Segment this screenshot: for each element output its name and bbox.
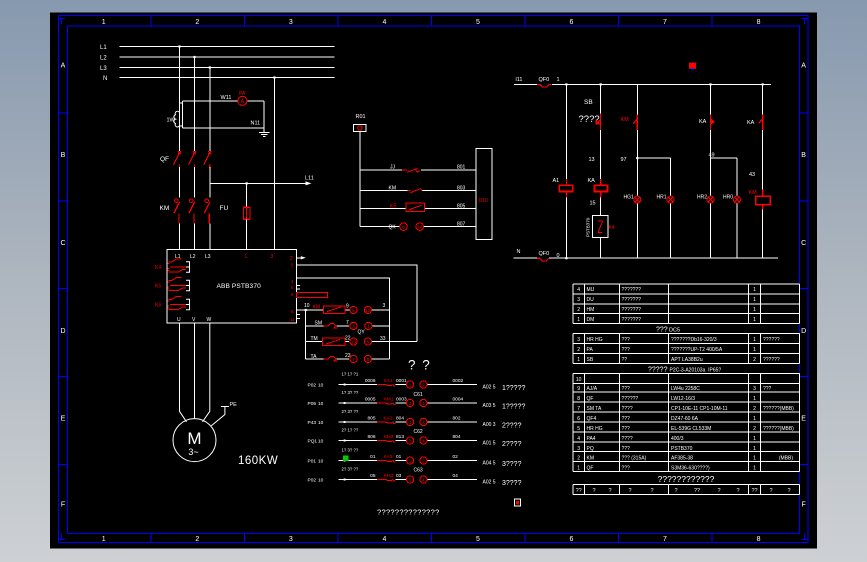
terminal pins row4 [350,355,372,362]
svg-text:??????: ?????? [763,337,780,343]
svg-text:PE: PE [230,402,238,408]
svg-text:KM: KM [160,205,170,212]
svg-text:2: 2 [422,382,425,387]
svg-text:TA: TA [311,354,318,360]
svg-text:? ?: ? ? [408,358,431,373]
svg-text:???????: ??????? [622,287,642,293]
svg-text:K4: K4 [155,265,161,271]
pushbutton SB [596,114,601,131]
svg-text:EL-539G CL533M: EL-539G CL533M [671,426,711,432]
svg-text:1: 1 [753,416,756,422]
svg-text:D: D [801,328,806,335]
svg-text:W: W [207,317,212,323]
svg-text:??????????????: ?????????????? [377,508,440,517]
svg-text:1: 1 [753,297,756,303]
svg-text:QF: QF [587,396,594,402]
svg-text:(MBB): (MBB) [779,456,794,462]
svg-text:???: ??? [656,327,668,334]
svg-text:10: 10 [318,420,324,426]
svg-text:U: U [177,317,181,323]
svg-text:D: D [60,328,65,335]
svg-text:?: ? [650,488,653,494]
svg-text:4: 4 [577,287,580,293]
lamp HG1 [634,196,641,203]
svg-text:P02: P02 [308,478,317,484]
svg-text:13: 13 [351,340,357,345]
wire ladder left rail [359,132,361,227]
svg-text:QF0: QF0 [539,251,550,257]
svg-text:PSTB370: PSTB370 [671,446,693,452]
svg-text:1: 1 [245,254,248,260]
svg-text:DZ47-60 6A: DZ47-60 6A [671,416,699,422]
wire L2 bus [120,56,335,58]
svg-text:F: F [801,502,805,509]
svg-text:01: 01 [370,454,376,460]
wire aux row2 [306,325,390,327]
svg-text:E: E [801,416,806,423]
svg-text:???: ??? [622,416,631,422]
wire branch KM lamps [636,84,638,258]
svg-text:??: ?? [622,357,628,363]
svg-text:KM1: KM1 [384,397,394,403]
svg-text:10: 10 [318,401,324,407]
svg-text:SB: SB [587,357,594,363]
svg-text:AF385-38: AF385-38 [671,456,693,462]
svg-text:1: 1 [102,536,106,543]
row letters right [801,62,806,508]
svg-text:6: 6 [577,416,580,422]
svg-text:A01 5: A01 5 [483,441,496,447]
svg-text:???????UP-T2 400/5A: ???????UP-T2 400/5A [671,347,723,353]
svg-text:FU: FU [220,205,229,212]
svg-text:N: N [517,249,521,255]
svg-text:10: 10 [318,478,324,484]
svg-text:MU: MU [587,287,595,293]
terminal row KA1 [308,371,526,392]
svg-text:HR1: HR1 [657,195,667,201]
starter top terminal labels [175,254,211,260]
svg-text:???: ??? [622,347,631,353]
svg-text:?????: ????? [648,367,668,374]
contactor KM pole [189,199,195,224]
ground for ammeter loop [259,132,269,136]
svg-text:TM: TM [311,336,318,342]
contact KA aux 2 [759,115,763,131]
phase line labels L1 L2 L3 N [100,45,107,82]
node taps on phase buses [178,45,275,78]
svg-text:7: 7 [346,320,349,326]
contact KM rung [407,189,422,193]
svg-text:7: 7 [663,536,667,543]
svg-text:05: 05 [370,473,376,479]
svg-text:5: 5 [476,19,480,26]
switch TA [324,357,338,362]
svg-text:???: ??? [622,446,631,452]
svg-text:?: ? [674,488,677,494]
svg-text:2: 2 [195,19,199,26]
svg-text:A: A [61,62,66,69]
wire branch KA lamps [710,84,712,258]
svg-text:C: C [60,240,65,247]
wire L3 bus [120,67,335,69]
svg-text:3: 3 [271,254,274,260]
svg-text:?: ? [787,488,790,494]
breaker QF pole [174,151,182,168]
svg-text:6: 6 [570,536,574,543]
contact KM aux [633,115,637,131]
svg-text:?: ? [608,488,611,494]
terminal pins row3 [350,338,372,345]
svg-text:2? 1? ??: 2? 1? ?? [342,427,359,432]
wire branch SB/KA [600,84,602,258]
svg-text:HR HG: HR HG [587,426,603,432]
svg-text:10: 10 [417,225,423,230]
svg-text:1W: 1W [167,118,176,124]
wire lamp branch 2 [711,158,738,258]
svg-text:4: 4 [422,401,425,406]
DI input block [476,149,492,240]
terminal row KM1 [308,390,526,411]
wire branch KM coil [762,84,764,258]
svg-text:4: 4 [382,19,386,26]
svg-text:???????Db16-320/3: ???????Db16-320/3 [671,337,717,343]
svg-text:????????????: ???????????? [658,474,715,484]
ammeter PA [238,96,247,105]
svg-text:2? 3? ??: 2? 3? ?? [342,409,359,414]
svg-text:K6: K6 [155,303,161,309]
svg-text:3: 3 [422,420,425,425]
bypass contact K4 [155,259,190,272]
svg-text:A1: A1 [553,178,560,184]
starter aux arrow out [296,257,302,259]
wire L11 takeoff [210,182,307,184]
svg-text:KA: KA [747,120,755,126]
svg-text:12: 12 [365,308,371,313]
column divider ticks bottom band [151,534,712,543]
svg-text:?: ? [769,488,772,494]
svg-text:P05: P05 [308,401,317,407]
svg-text:807: 807 [457,222,466,228]
wire fuse to starter [246,219,248,249]
svg-text:806: 806 [367,434,375,440]
svg-text:SM: SM [315,321,323,327]
svg-text:KA: KA [699,119,707,125]
wire to fuse FU [246,183,248,207]
svg-text:HM: HM [587,307,595,313]
wire aux left rail [305,310,307,359]
contactor coil KM [756,189,770,209]
svg-text:1: 1 [557,77,560,83]
svg-text:7: 7 [663,19,667,26]
svg-text:KM3: KM3 [384,473,394,479]
svg-text:3: 3 [577,297,580,303]
svg-text:2: 2 [422,458,425,463]
wire aux row4 [306,358,390,360]
terminal pins row2 [350,322,372,329]
svg-text:813: 813 [396,434,404,440]
svg-text:15: 15 [590,201,596,207]
svg-text:2: 2 [577,347,580,353]
svg-text:SB: SB [584,99,593,106]
PE wire [211,407,229,426]
svg-text:10: 10 [576,377,582,383]
terminal pins row1 [350,306,372,313]
svg-text:1: 1 [753,446,756,452]
svg-text:PQ1: PQ1 [308,439,318,445]
svg-text:1?????: 1????? [502,385,525,392]
wire L1 drop [179,47,181,152]
wire KM poles to starter box [180,224,210,250]
wire QF to KM poles [180,167,210,197]
svg-text:KM: KM [749,190,758,196]
wire starter to motor W [203,323,210,422]
column divider ticks top band [151,16,712,26]
row letters left [60,62,65,508]
svg-text:1: 1 [753,287,756,293]
svg-text:?: ? [628,488,631,494]
terminal row KA5 [308,447,522,468]
wire L2 drop [194,57,196,151]
svg-text:2: 2 [753,426,756,432]
svg-text:8: 8 [757,536,761,543]
svg-text:6: 6 [570,19,574,26]
motor M [173,419,216,462]
svg-text:???????: ??????? [622,297,642,303]
svg-text:2????: 2???? [502,423,522,430]
svg-text:0: 0 [557,253,560,259]
svg-text:??: ?? [751,488,757,494]
svg-text:3: 3 [289,536,293,543]
bypass contact K5 [155,278,190,291]
svg-text:2? 3? ??: 2? 3? ?? [342,466,359,471]
contactor KM pole [204,199,210,224]
svg-text:4: 4 [577,436,580,442]
svg-text:8: 8 [577,396,580,402]
svg-text:1: 1 [753,337,756,343]
svg-text:PQ: PQ [587,446,594,452]
svg-text:HR0: HR0 [723,195,733,201]
svg-text:1: 1 [577,357,580,363]
breaker QF0 top [537,84,552,87]
svg-text:KA5: KA5 [384,454,393,460]
wire rung 801 [360,169,476,171]
relay coil A1 [559,179,573,198]
svg-text:???????: ??????? [622,317,642,323]
svg-text:2: 2 [753,406,756,412]
wire N bus [120,77,335,79]
svg-text:??????(MBB): ??????(MBB) [763,406,794,412]
svg-text:5: 5 [577,426,580,432]
svg-text:1: 1 [753,317,756,323]
svg-text:0001: 0001 [396,378,407,384]
svg-text:1: 1 [753,347,756,353]
wire starter to motor V [194,323,196,419]
svg-text:804: 804 [453,434,461,440]
starter right stub terminals [296,286,300,319]
svg-text:3????: 3???? [502,480,522,487]
green marker [343,456,349,462]
svg-text:F: F [61,502,65,509]
svg-text:1? 3? ??: 1? 3? ?? [342,390,359,395]
svg-text:C: C [801,240,806,247]
svg-text:2: 2 [290,256,293,262]
wire ammeter loop [180,101,265,133]
svg-text:ABB PSTB370: ABB PSTB370 [217,283,262,290]
svg-text:???: ??? [763,386,772,392]
svg-text:KM2: KM2 [384,434,394,440]
lamp HR0 [734,196,741,203]
svg-text:l11: l11 [516,77,523,83]
svg-text:S3M36-630????): S3M36-630????) [671,465,710,471]
table section 1 rows [577,287,756,293]
breaker QF pole [189,151,197,168]
svg-text:801: 801 [457,165,466,171]
svg-text:PA: PA [587,347,594,353]
lamp HR2 [707,196,714,203]
wire control top bus L11 [514,83,771,85]
svg-text:C61: C61 [414,392,423,398]
svg-text:???: ??? [622,465,631,471]
svg-text:LW4u 2258C: LW4u 2258C [671,386,700,392]
svg-text:PA: PA [239,91,246,97]
svg-text:K5: K5 [390,203,396,209]
svg-text:LW12-16/3: LW12-16/3 [671,396,695,402]
svg-text:?: ? [717,488,720,494]
relay contact TM (aux row3) [322,338,344,346]
svg-text:3: 3 [409,438,412,443]
svg-text:3: 3 [577,446,580,452]
svg-text:??? (315A): ??? (315A) [622,456,647,462]
fuse FU [243,207,250,219]
svg-text:CP1-10E-11 CP1-10M-11: CP1-10E-11 CP1-10M-11 [671,406,728,412]
svg-text:HG1: HG1 [624,195,635,201]
wire lamp branch 1 [637,158,670,258]
svg-text:3: 3 [577,337,580,343]
svg-text:DM: DM [587,317,595,323]
svg-text:A00 3: A00 3 [483,422,496,428]
wire L3 drop [209,68,211,152]
lamp HR1 [667,196,674,203]
svg-text:???: ??? [622,386,631,392]
svg-text:8: 8 [757,19,761,26]
svg-text:M: M [187,429,201,448]
svg-text:803: 803 [457,186,466,192]
svg-text:P02: P02 [308,383,317,389]
svg-text:3~: 3~ [188,447,198,457]
inner border frame [68,26,800,534]
resistor bar on starter output [297,292,328,297]
svg-text:K5: K5 [155,284,161,290]
svg-text:KA1: KA1 [384,378,393,384]
wire aux row3 [306,341,417,343]
svg-text:W11: W11 [221,95,232,101]
svg-text:0002: 0002 [453,378,464,384]
svg-text:3: 3 [383,303,386,309]
svg-text:3????: 3???? [502,461,522,468]
node junction on L11 wire [246,182,248,184]
svg-text:1: 1 [102,19,106,26]
table section 3 rows [576,377,582,383]
svg-text:4: 4 [382,536,386,543]
svg-text:9: 9 [577,386,580,392]
starter bottom terminal labels [177,317,212,323]
svg-text:KM: KM [389,186,397,192]
svg-text:QF4: QF4 [587,416,597,422]
row divider ticks left band [59,113,68,465]
svg-text:???: ??? [622,426,631,432]
column numbers top [102,19,761,26]
svg-text:??: ?? [694,488,700,494]
wire L1 bus [120,46,335,48]
svg-text:3: 3 [753,386,756,392]
svg-text:???????: ??????? [622,307,642,313]
svg-text:97: 97 [621,157,627,163]
svg-text:A04 5: A04 5 [483,461,496,467]
svg-text:1: 1 [409,458,412,463]
svg-text:1: 1 [409,420,412,425]
svg-text:0006: 0006 [365,378,376,384]
svg-text:N: N [103,76,107,82]
svg-text:4: 4 [422,477,425,482]
svg-text:04: 04 [453,473,459,479]
equipment table grid [573,284,800,494]
svg-text:0003: 0003 [396,397,407,403]
arrow L11 [306,181,312,185]
svg-text:HR2: HR2 [697,195,707,201]
svg-text:0005: 0005 [365,397,376,403]
svg-text:??????: ?????? [622,396,639,402]
table bottom header [576,488,791,494]
svg-text:02: 02 [453,454,459,460]
svg-text:33: 33 [380,336,386,342]
wire starter aux top loop [296,265,417,342]
svg-text:DU: DU [587,297,595,303]
svg-text:E: E [61,416,66,423]
svg-text:QK: QK [389,225,397,231]
svg-text:400/3: 400/3 [671,436,684,442]
svg-text:L1: L1 [100,45,107,51]
contactor KM pole [174,199,180,224]
soft starter ABB PSTB370 [167,250,296,323]
column numbers bottom [102,536,761,543]
svg-text:10: 10 [318,439,324,445]
wire rung 803 [360,190,476,192]
svg-text:SM TA: SM TA [587,406,602,412]
svg-text:QF: QF [160,156,169,163]
svg-text:1? 1? ?1: 1? 1? ?1 [342,371,359,376]
svg-text:A03 5: A03 5 [483,403,496,409]
svg-text:1: 1 [753,436,756,442]
svg-text:KA: KA [588,178,596,184]
svg-text:A02 5: A02 5 [483,480,496,486]
wire rung 807 [360,226,476,228]
svg-text:3: 3 [409,401,412,406]
switch SM [324,323,338,328]
svg-text:JJ: JJ [390,165,396,171]
relay coil KA [595,179,608,198]
svg-text:1: 1 [409,382,412,387]
svg-text:10: 10 [318,383,324,389]
svg-text:1: 1 [577,465,580,471]
svg-text:P2C-3-A20103a IP65?: P2C-3-A20103a IP65? [670,368,722,374]
svg-text:QY: QY [358,330,366,336]
svg-text:805: 805 [457,203,466,209]
terminal row KM3 [308,466,522,487]
svg-text:KM: KM [313,305,321,311]
svg-text:P01: P01 [308,459,317,465]
svg-text:4: 4 [422,438,425,443]
svg-text:10: 10 [318,459,324,465]
